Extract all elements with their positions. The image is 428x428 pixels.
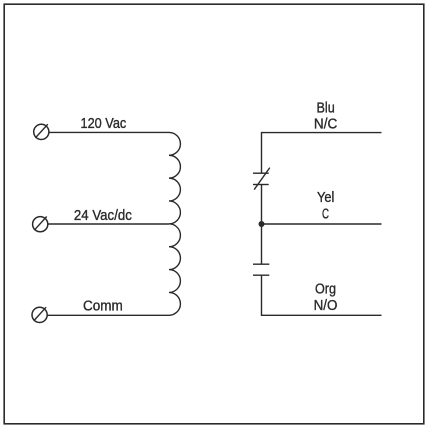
wire N/C contact to common node [261, 185, 263, 225]
wire Org N/O bottom [262, 275, 382, 315]
wire Blu N/C top [262, 133, 382, 174]
svg-text:120 Vac: 120 Vac [81, 116, 127, 132]
svg-text:N/O: N/O [314, 298, 338, 314]
wire Comm to coil [47, 314, 169, 316]
svg-text:N/C: N/C [314, 117, 337, 133]
svg-text:C: C [322, 207, 329, 223]
contact N/C (normally closed) [253, 168, 270, 190]
svg-text:24 Vac/dc: 24 Vac/dc [74, 208, 132, 224]
svg-text:Blu: Blu [316, 100, 334, 116]
node common junction dot [259, 221, 265, 227]
wire Yel C [262, 223, 382, 225]
wire common node to N/O contact [261, 224, 263, 264]
wire 120 Vac to coil [49, 131, 169, 133]
terminal 24 Vac/dc screw [33, 217, 48, 232]
terminal 120 Vac screw [34, 124, 49, 139]
svg-text:Comm: Comm [83, 299, 123, 315]
terminal Comm screw [32, 307, 47, 322]
svg-text:Yel: Yel [317, 190, 334, 206]
wire 24 Vac/dc to coil center tap [48, 223, 169, 225]
contact N/O (normally open) [253, 264, 269, 275]
svg-text:Org: Org [315, 281, 336, 297]
coil L1 transformer winding with center tap [169, 132, 180, 315]
